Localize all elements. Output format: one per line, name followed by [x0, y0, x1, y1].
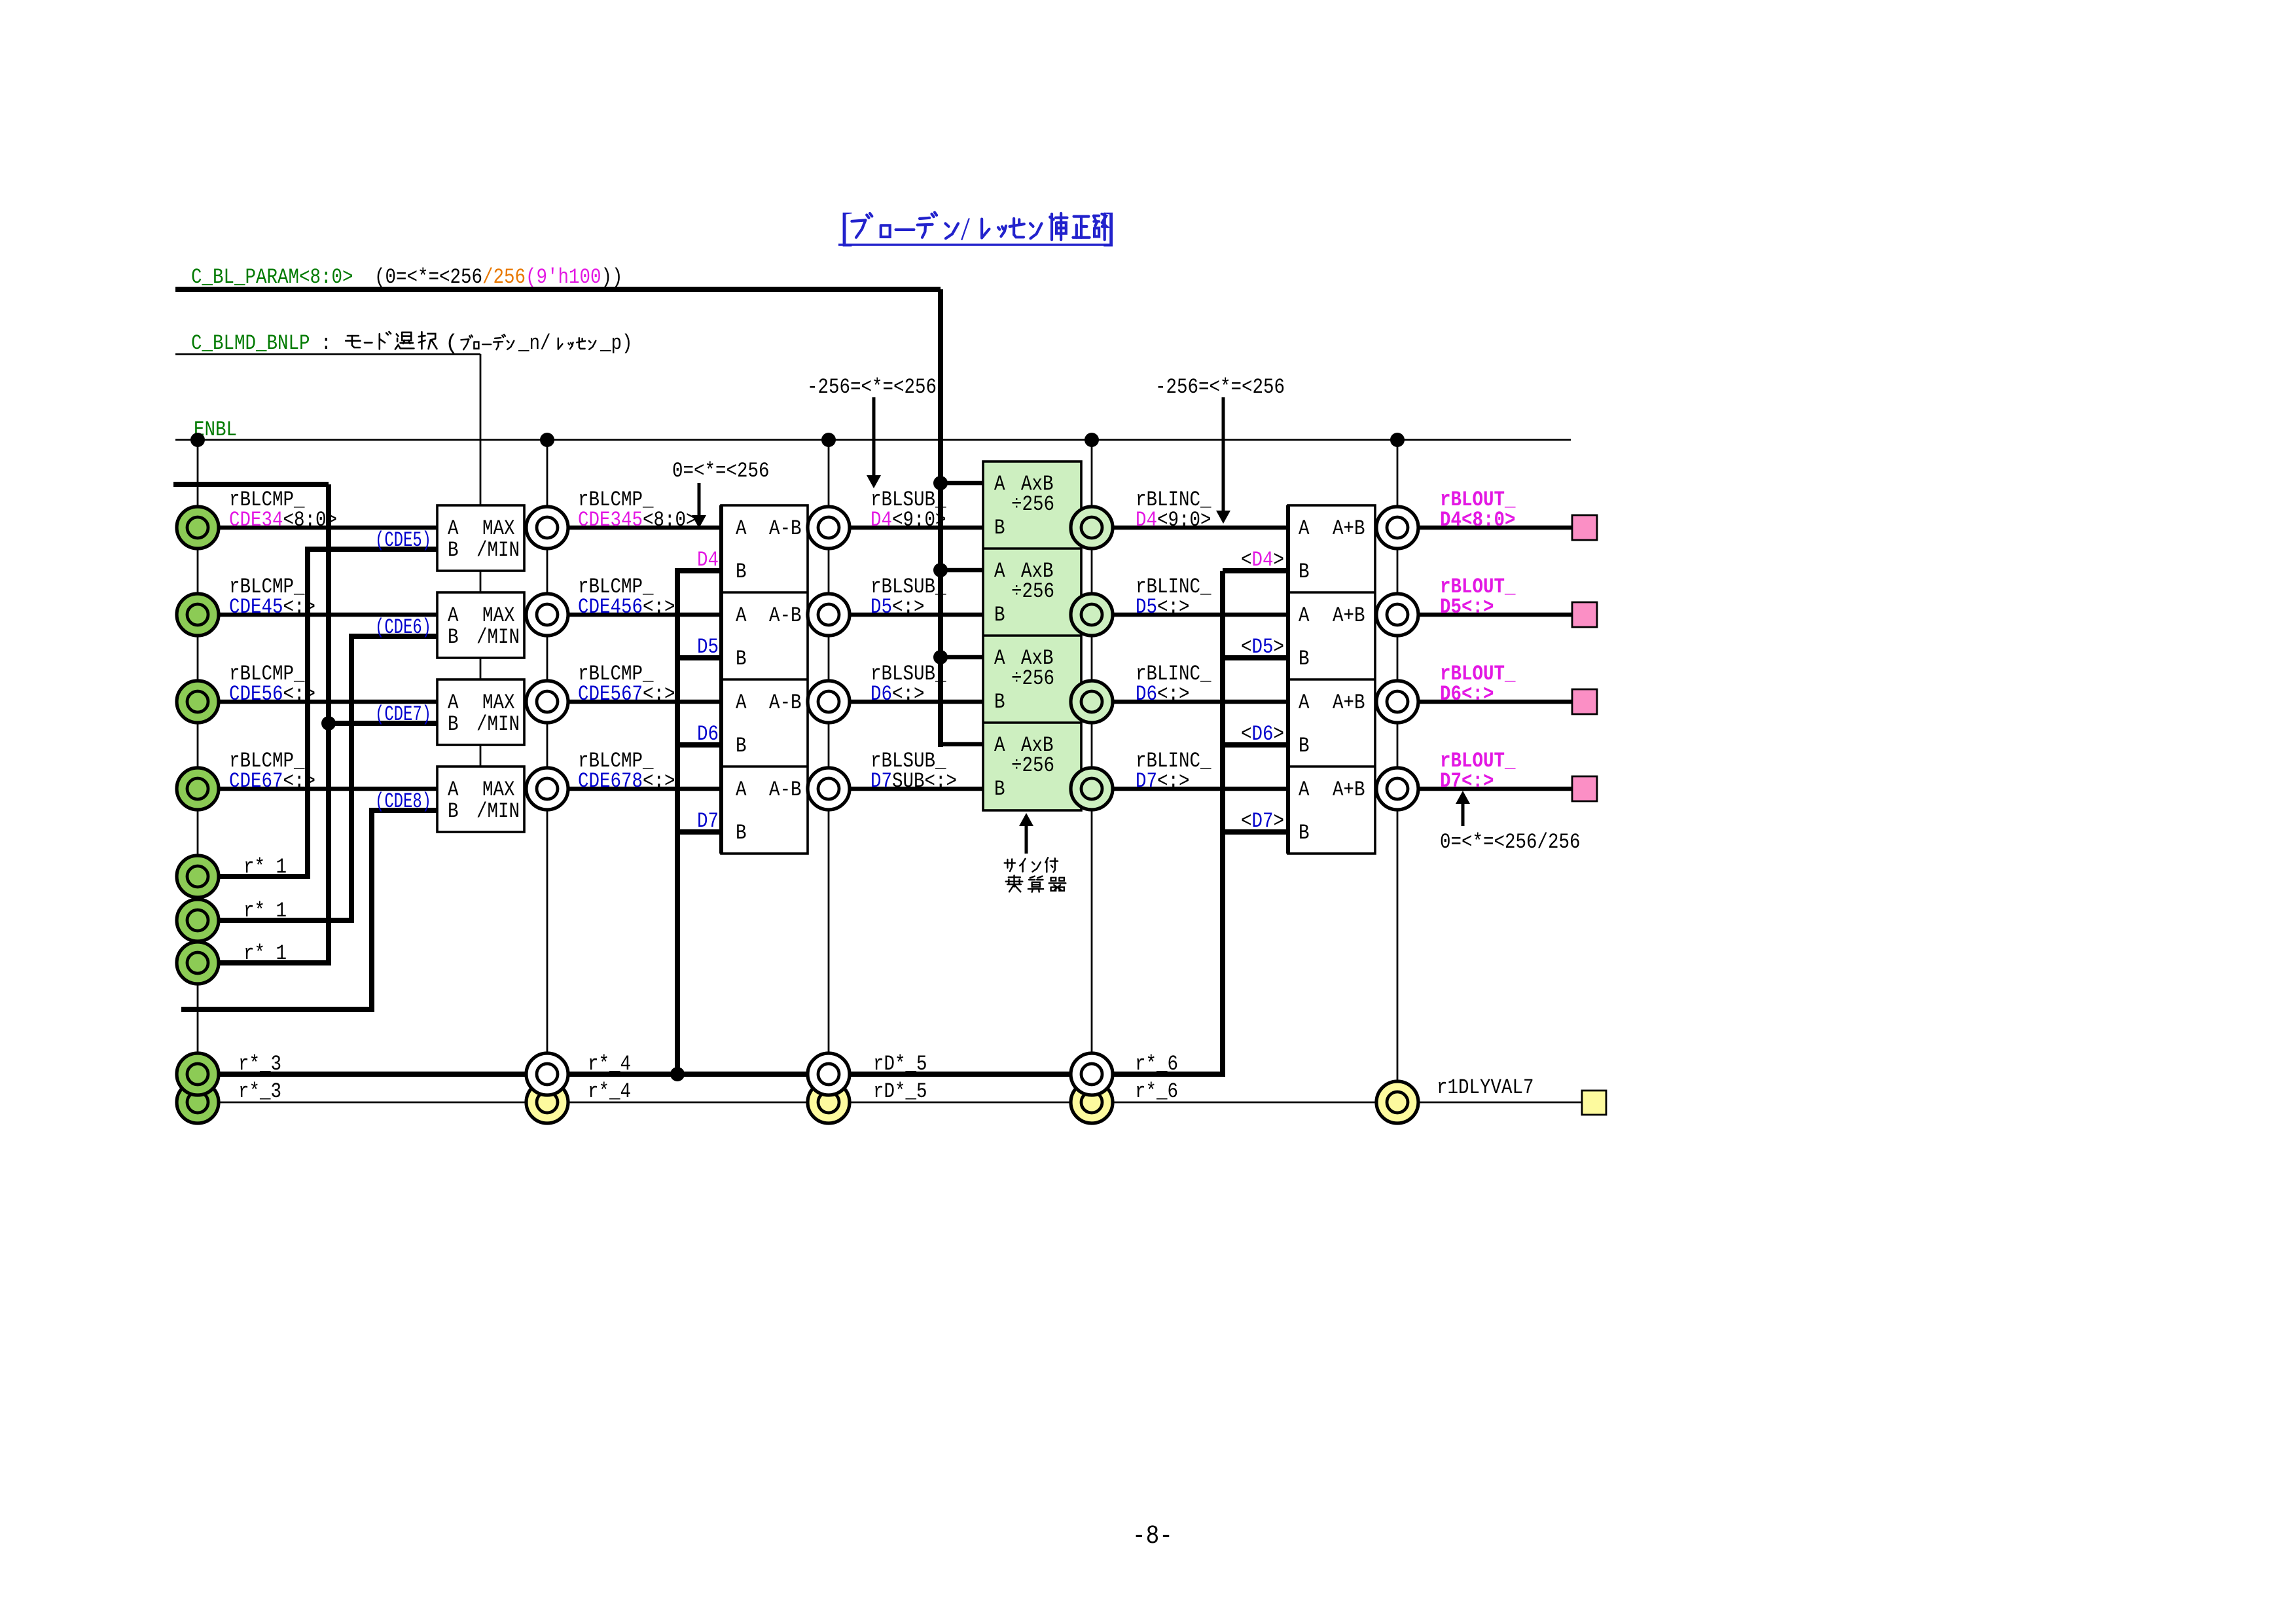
- port rBLCMP input connector row1 (green): [177, 507, 219, 549]
- wire <D4> stub to A+B block1 B input: [1223, 568, 1288, 573]
- svg-text:<D7>: <D7>: [1241, 809, 1284, 833]
- wire row2 MAX/MIN out to A-B block A: [524, 613, 721, 617]
- svg-text:D7SUB<:>: D7SUB<:>: [870, 769, 957, 793]
- svg-text:B: B: [1299, 560, 1310, 584]
- port rBLSUB connector row2 (white): [808, 594, 850, 636]
- port bottom yellow connector col4: [1071, 1081, 1113, 1123]
- svg-text:D6: D6: [697, 722, 719, 746]
- port r*_1 connector 3 (green): [177, 942, 219, 984]
- port rBLOUT_D5 output square (pink): [1572, 602, 1597, 627]
- port rBLOUT_D7 output square (pink): [1572, 776, 1597, 801]
- svg-text:(: (: [445, 331, 458, 355]
- port bottom white connector col2: [526, 1053, 568, 1095]
- label MAX/MIN 2 pins: [448, 604, 520, 649]
- svg-text:A: A: [994, 559, 1005, 583]
- svg-text:B: B: [736, 647, 747, 671]
- port rBLOUT connector row4 (white): [1376, 768, 1418, 810]
- wire row2 A+B out to output port (rBLOUT): [1375, 613, 1572, 617]
- wire column5 vertical: [1397, 440, 1399, 1102]
- svg-text:D4<9:0>: D4<9:0>: [1136, 508, 1211, 532]
- block MAX/MIN comparator 3: [437, 679, 524, 745]
- wire row3 MAX/MIN out to A-B block A: [524, 700, 721, 704]
- label A-B block1 pins: [736, 516, 802, 584]
- svg-text:r*_1: r*_1: [243, 855, 287, 879]
- port bottom yellow connector col3: [808, 1081, 850, 1123]
- wire C_BL_PARAM bus horizontal: [175, 287, 941, 292]
- svg-text:A+B: A+B: [1333, 604, 1365, 628]
- svg-text:A+B: A+B: [1333, 691, 1365, 715]
- wire top-left bus stub: [173, 482, 329, 487]
- label title katakana/kanji strokes: [852, 212, 958, 238]
- svg-text:/: /: [961, 210, 970, 247]
- svg-text:MAX: MAX: [482, 778, 515, 802]
- svg-text:CDE34<8:0>: CDE34<8:0>: [229, 508, 337, 532]
- port bottom yellow connector col2: [526, 1081, 568, 1123]
- junction ENBL dot 2: [540, 433, 554, 447]
- label multiplier2 pins AxB /256: [994, 559, 1054, 627]
- port bottom white connector col4: [1071, 1053, 1113, 1095]
- block MAX/MIN comparator 4: [437, 767, 524, 832]
- svg-text:D4: D4: [697, 548, 719, 572]
- junction D bus to bottom bus: [670, 1067, 685, 1081]
- port rBLOUT_D4 output square (pink): [1572, 515, 1597, 540]
- svg-text:-256=<*=<256: -256=<*=<256: [807, 375, 937, 399]
- wire row1 CDE input to MAX/MIN A: [219, 526, 437, 530]
- svg-text:A-B: A-B: [769, 691, 802, 715]
- svg-text:r1DLYVAL7: r1DLYVAL7: [1437, 1075, 1534, 1100]
- svg-text:0=<*=<256: 0=<*=<256: [672, 459, 770, 483]
- svg-text:÷256: ÷256: [1011, 753, 1054, 778]
- wire C_BL_PARAM tap to multiplier3 A: [941, 655, 983, 660]
- port r*_3 connector upper (green): [177, 1053, 219, 1095]
- svg-text:-8-: -8-: [1132, 1522, 1173, 1551]
- port rBLINC connector row4 (green pale): [1071, 768, 1113, 810]
- junction ENBL dot 3: [821, 433, 836, 447]
- svg-text:A+B: A+B: [1333, 778, 1365, 802]
- svg-text:D5<:>: D5<:>: [870, 595, 925, 619]
- svg-text:A: A: [1299, 604, 1310, 628]
- label multiplier note (signed multiplier) with up arrow: [1019, 813, 1033, 854]
- svg-text:B: B: [994, 777, 1005, 801]
- port rBLINC connector row3 (green pale): [1071, 681, 1113, 723]
- svg-text:/MIN: /MIN: [476, 625, 520, 649]
- port rBLINC connector row2 (green pale): [1071, 594, 1113, 636]
- wire row4 MAX/MIN out to A-B block A: [524, 787, 721, 791]
- svg-text:D7: D7: [697, 809, 719, 833]
- wire row3 CDE input to MAX/MIN A: [219, 700, 437, 704]
- svg-text:B: B: [1299, 647, 1310, 671]
- wire MAX/MIN4 B input route: [181, 810, 437, 1009]
- port r*_3 connector lower (green): [177, 1081, 219, 1123]
- junction ENBL dot 1: [190, 433, 205, 447]
- svg-text:MAX: MAX: [482, 604, 515, 628]
- port rBLINC connector row1 (green pale): [1071, 507, 1113, 549]
- port rBLSUB connector row1 (white): [808, 507, 850, 549]
- wire row2 CDE input to MAX/MIN A: [219, 613, 437, 617]
- port rBLOUT connector row3 (white): [1376, 681, 1418, 723]
- svg-text:A: A: [736, 691, 747, 715]
- block A-B subtractor column: [721, 505, 808, 854]
- block MAX/MIN comparator 2: [437, 592, 524, 658]
- wire row3 A-B out to multiplier B: [808, 700, 983, 704]
- label A-B block3 pins: [736, 691, 802, 758]
- svg-text:D6<:>: D6<:>: [1136, 682, 1190, 706]
- svg-text:D7<:>: D7<:>: [1440, 769, 1494, 793]
- svg-text:A: A: [448, 778, 459, 802]
- svg-text:A: A: [448, 691, 459, 715]
- port rBLCMP CDE345 connector row4 (white): [526, 768, 568, 810]
- svg-text:B: B: [994, 603, 1005, 627]
- svg-text:A-B: A-B: [769, 604, 802, 628]
- svg-text:A: A: [736, 516, 747, 541]
- port rBLOUT connector row1 (white): [1376, 507, 1418, 549]
- svg-text:CDE456<:>: CDE456<:>: [578, 595, 675, 619]
- svg-text:CDE45<:>: CDE45<:>: [229, 595, 315, 619]
- svg-text:r*_3: r*_3: [238, 1079, 281, 1104]
- port bottom yellow connector col5 (r1DLYVAL7): [1376, 1081, 1418, 1123]
- svg-text:r*_4: r*_4: [588, 1052, 631, 1076]
- port rBLCMP CDE345 connector row2 (white): [526, 594, 568, 636]
- wire row1 multiplier out to A+B block A (rBLINC): [1081, 526, 1288, 530]
- wire row2 multiplier out to A+B block A (rBLINC): [1081, 613, 1288, 617]
- svg-text:A: A: [736, 778, 747, 802]
- svg-text:D4<8:0>: D4<8:0>: [1440, 508, 1516, 532]
- port rBLCMP input connector row4 (green): [177, 768, 219, 810]
- svg-text:(CDE7): (CDE7): [375, 702, 431, 727]
- svg-text:B: B: [448, 625, 459, 649]
- svg-text:CDE56<:>: CDE56<:>: [229, 682, 315, 706]
- wire row4 A+B out to output port (rBLOUT): [1375, 787, 1572, 791]
- svg-text:(0=<*=<256/256(9'h100)): (0=<*=<256/256(9'h100)): [374, 265, 623, 289]
- wire <D> bus vertical from bottom bus corner: [1220, 571, 1225, 1074]
- label multiplier1 pins AxB /256: [994, 472, 1054, 540]
- svg-text:<D6>: <D6>: [1241, 722, 1284, 746]
- wire column4 vertical: [1091, 440, 1093, 1074]
- svg-text:r*_4: r*_4: [588, 1079, 631, 1104]
- label A+B block4 pins: [1299, 778, 1365, 845]
- svg-text:A-B: A-B: [769, 778, 802, 802]
- svg-text:C_BLMD_BNLP :: C_BLMD_BNLP :: [191, 331, 342, 355]
- svg-text:MAX: MAX: [482, 691, 515, 715]
- label MAX/MIN 3 pins: [448, 691, 520, 736]
- svg-text:B: B: [448, 538, 459, 562]
- block multiplier (AxB/256) column green: [983, 461, 1081, 810]
- wire r*_1(2) to MAX/MIN2 B input: [219, 636, 437, 920]
- svg-text:A+B: A+B: [1333, 516, 1365, 541]
- svg-text:CDE345<8:0>: CDE345<8:0>: [578, 508, 697, 532]
- svg-text:[: [: [840, 206, 853, 250]
- wire D5 stub to A-B block2 B input: [677, 655, 721, 660]
- svg-text:A: A: [994, 472, 1005, 496]
- wire column3 vertical: [828, 440, 830, 1074]
- port r*_1 connector 2 (green): [177, 899, 219, 941]
- svg-text:B: B: [736, 560, 747, 584]
- svg-text:(CDE8): (CDE8): [375, 789, 431, 814]
- label MAX/MIN 1 pins: [448, 516, 520, 562]
- svg-text:<D5>: <D5>: [1241, 635, 1284, 659]
- svg-text:A-B: A-B: [769, 516, 802, 541]
- wire D bus vertical (D4-D7 delayed data): [675, 568, 680, 1074]
- svg-text:D5: D5: [697, 635, 719, 659]
- wire <D7> stub to A+B block4 B input: [1223, 829, 1288, 835]
- label MAX/MIN 4 pins: [448, 778, 520, 823]
- wire r*_1(1) to MAX/MIN1 B input: [219, 549, 437, 876]
- junction dot MAX/MIN3 B tap: [321, 716, 336, 731]
- port rBLCMP input connector row2 (green): [177, 594, 219, 636]
- wire C_BLMD_BNLP net horizontal: [175, 353, 480, 355]
- wire row2 A-B out to multiplier B: [808, 613, 983, 617]
- wire row1 MAX/MIN out to A-B block A: [524, 526, 721, 530]
- wire bottom bus B (thin delay bus): [219, 1102, 1583, 1104]
- svg-text:÷256: ÷256: [1011, 579, 1054, 604]
- port rBLCMP input connector row3 (green): [177, 681, 219, 723]
- port rBLCMP CDE345 connector row1 (white): [526, 507, 568, 549]
- svg-text:_n/: _n/: [518, 331, 550, 355]
- wire row4 multiplier out to A+B block A (rBLINC): [1081, 787, 1288, 791]
- svg-text:r*_6: r*_6: [1135, 1079, 1178, 1104]
- svg-text:D5<:>: D5<:>: [1136, 595, 1190, 619]
- wire column2 vertical: [547, 440, 548, 1074]
- svg-text:-256=<*=<256: -256=<*=<256: [1155, 375, 1285, 399]
- svg-text:D5<:>: D5<:>: [1440, 595, 1494, 619]
- svg-text:0=<*=<256/256: 0=<*=<256/256: [1440, 830, 1581, 854]
- svg-text:r*_1: r*_1: [243, 899, 287, 923]
- wire D6 stub to A-B block3 B input: [677, 742, 721, 748]
- svg-text:B: B: [448, 712, 459, 736]
- wire column1 vertical (ENBL to bottom connector): [197, 440, 199, 1102]
- port rBLOUT connector row2 (white): [1376, 594, 1418, 636]
- svg-text:CDE67<:>: CDE67<:>: [229, 769, 315, 793]
- wire row3 multiplier out to A+B block A (rBLINC): [1081, 700, 1288, 704]
- label title [ブローデン/レッセン補正部] (blue, underlined): [840, 206, 1116, 250]
- junction C_BL_PARAM tap dot 1: [933, 476, 948, 490]
- port bottom white connector col3: [808, 1053, 850, 1095]
- label A+B block3 pins: [1299, 691, 1365, 758]
- label multiplier3 pins AxB /256: [994, 646, 1054, 714]
- junction C_BL_PARAM tap dot 3: [933, 650, 948, 664]
- svg-text:_p): _p): [600, 331, 632, 355]
- wire row4 CDE input to MAX/MIN A: [219, 787, 437, 791]
- svg-text:A: A: [448, 604, 459, 628]
- junction ENBL dot 4: [1085, 433, 1099, 447]
- svg-text:D4<9:0>: D4<9:0>: [870, 508, 946, 532]
- wire D4 stub to A-B block1 B input: [677, 568, 721, 573]
- label A-B block2 pins: [736, 604, 802, 671]
- svg-text:/MIN: /MIN: [476, 538, 520, 562]
- svg-text:rD*_5: rD*_5: [873, 1079, 927, 1104]
- svg-text:÷256: ÷256: [1011, 666, 1054, 691]
- svg-text:MAX: MAX: [482, 516, 515, 541]
- wire C_BL_PARAM tap to multiplier2 A: [941, 568, 983, 573]
- wire <D5> stub to A+B block2 B input: [1223, 655, 1288, 660]
- svg-text:r*_3: r*_3: [238, 1052, 281, 1076]
- block A+B adder column: [1288, 505, 1375, 854]
- wire row1 A-B out to multiplier B: [808, 526, 983, 530]
- port rBLSUB connector row4 (white): [808, 768, 850, 810]
- svg-text:B: B: [1299, 734, 1310, 758]
- svg-text:B: B: [994, 690, 1005, 714]
- wire bottom bus A (thick delay bus): [219, 571, 1223, 1074]
- svg-text:C_BL_PARAM<8:0>: C_BL_PARAM<8:0>: [191, 265, 353, 289]
- wire r*_1(3) vertical to top stub: [219, 484, 329, 963]
- wire C_BLMD_BNLP vertical to MAX/MIN blocks: [480, 354, 482, 767]
- wire row3 A+B out to output port (rBLOUT): [1375, 700, 1572, 704]
- svg-text:B: B: [1299, 821, 1310, 845]
- svg-text:CDE678<:>: CDE678<:>: [578, 769, 675, 793]
- svg-text:A: A: [994, 733, 1005, 757]
- svg-text:(CDE5): (CDE5): [375, 528, 431, 552]
- wire D7 stub to A-B block4 B input: [677, 829, 721, 835]
- svg-text:rD*_5: rD*_5: [873, 1052, 927, 1076]
- port rBLSUB connector row3 (white): [808, 681, 850, 723]
- label A+B block2 pins: [1299, 604, 1365, 671]
- wire row4 A-B out to multiplier B: [808, 787, 983, 791]
- junction ENBL dot 5: [1390, 433, 1405, 447]
- wire C_BL_PARAM tap to multiplier4 A: [941, 742, 983, 747]
- svg-text:CDE567<:>: CDE567<:>: [578, 682, 675, 706]
- svg-text:D7<:>: D7<:>: [1136, 769, 1190, 793]
- svg-text:B: B: [736, 734, 747, 758]
- wire ENBL horizontal net: [175, 439, 1571, 441]
- svg-text:r*_6: r*_6: [1135, 1052, 1178, 1076]
- label multiplier4 pins AxB /256: [994, 733, 1054, 801]
- svg-text:B: B: [736, 821, 747, 845]
- svg-text:A: A: [736, 604, 747, 628]
- svg-text:A: A: [1299, 516, 1310, 541]
- svg-text:/MIN: /MIN: [476, 799, 520, 823]
- svg-text:/MIN: /MIN: [476, 712, 520, 736]
- port r1DLYVAL7 output square (yellow): [1582, 1091, 1606, 1115]
- svg-text:A: A: [1299, 691, 1310, 715]
- svg-text:<D4>: <D4>: [1241, 548, 1284, 572]
- svg-text:A: A: [1299, 778, 1310, 802]
- svg-text:D6<:>: D6<:>: [870, 682, 925, 706]
- svg-text:(CDE6): (CDE6): [375, 615, 431, 640]
- label A-B block4 pins: [736, 778, 802, 845]
- wire C_BL_PARAM tap to multiplier1 A: [941, 481, 983, 486]
- svg-text:÷256: ÷256: [1011, 492, 1054, 516]
- port r*_1 connector 1 (green): [177, 856, 219, 897]
- svg-text:r*_1: r*_1: [243, 941, 287, 965]
- wire C_BL_PARAM bus vertical down to multipliers: [938, 289, 943, 747]
- wire MAX/MIN3 B input tap: [329, 721, 437, 726]
- wire title underline: [838, 244, 1113, 245]
- svg-text:D6<:>: D6<:>: [1440, 682, 1494, 706]
- junction C_BL_PARAM tap dot 2: [933, 563, 948, 577]
- svg-text:A: A: [448, 516, 459, 541]
- port rBLOUT_D6 output square (pink): [1572, 689, 1597, 714]
- wire <D6> stub to A+B block3 B input: [1223, 742, 1288, 748]
- svg-text:A: A: [994, 646, 1005, 670]
- port rBLCMP CDE345 connector row3 (white): [526, 681, 568, 723]
- wire row1 A+B out to output port (rBLOUT): [1375, 526, 1572, 530]
- svg-text:B: B: [448, 799, 459, 823]
- block MAX/MIN comparator 1: [437, 505, 524, 571]
- label A+B block1 pins: [1299, 516, 1365, 584]
- svg-text:B: B: [994, 516, 1005, 540]
